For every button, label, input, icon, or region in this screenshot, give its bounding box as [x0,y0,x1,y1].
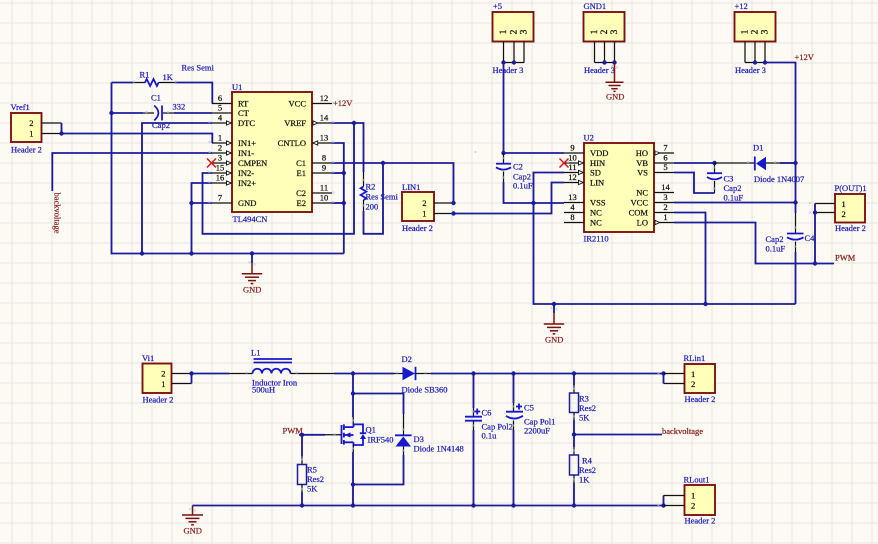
svg-text:GND: GND [238,198,256,208]
svg-text:Header 3: Header 3 [493,65,524,75]
connector LIN1 [402,182,454,233]
svg-text:NC: NC [590,218,602,228]
svg-text:LO: LO [637,218,648,228]
resistor R3 [570,371,597,434]
svg-text:200: 200 [366,202,379,212]
svg-text:7: 7 [218,193,222,203]
svg-text:12: 12 [320,93,329,103]
svg-text:U2: U2 [584,133,594,143]
svg-text:Header 2: Header 2 [143,395,174,405]
svg-text:500uH: 500uH [252,385,275,395]
node switch node top [351,371,355,375]
wire Vref to IN1+ [62,134,213,144]
node VCC rail junction [793,200,797,204]
svg-text:U1: U1 [232,82,242,92]
svg-text:+12: +12 [735,1,748,11]
svg-text:C6: C6 [482,408,492,418]
resistor R4 [570,435,597,506]
svg-text:COM: COM [629,208,649,218]
wire CNTLO to E1 E2 to rail [332,143,344,254]
no-ERC marker HIN [560,159,569,168]
wire bottom ground rail [193,505,664,507]
svg-text:13: 13 [568,192,577,202]
svg-text:R3: R3 [579,394,589,404]
wire RLout tie [661,503,665,507]
op-amp U2 IR2110 [564,133,674,244]
svg-text:2: 2 [29,118,33,128]
svg-text:Header 2: Header 2 [685,516,716,526]
connector P(OUT)1 [815,183,867,233]
svg-text:CNTLO: CNTLO [278,138,306,148]
svg-text:Res2: Res2 [579,465,596,475]
svg-text:2: 2 [600,29,610,34]
transistor Q1 IRF540 [325,374,393,485]
svg-text:Res Semi: Res Semi [366,191,399,201]
wire top rail to RLin1 [661,371,665,375]
wire COM to ground rail [674,213,706,305]
wire C1 output to LIN1 [332,163,454,203]
svg-text:R4: R4 [582,456,593,466]
connector RLout1 [664,475,716,526]
node D1 +12 rail junction [793,161,797,165]
svg-text:SD: SD [590,168,601,178]
svg-text:C1: C1 [151,93,161,103]
node LIN1 pin2 [451,201,455,205]
svg-text:Res2: Res2 [579,403,596,413]
wire VB to D1 [674,162,715,164]
connector +12 Header 3 [735,1,776,75]
svg-text:1: 1 [218,133,222,143]
svg-text:CT: CT [238,108,250,118]
svg-text:2: 2 [509,29,519,34]
node LIN1 pin1 [451,211,455,215]
svg-text:4: 4 [218,113,223,123]
node PWM junction [813,261,817,265]
svg-text:10: 10 [320,193,329,203]
svg-text:Header 3: Header 3 [584,65,615,75]
svg-text:Res2: Res2 [307,474,324,484]
node backvoltage junction [572,432,576,436]
svg-text:C2: C2 [296,188,306,198]
svg-text:Diode 1N4007: Diode 1N4007 [754,174,804,184]
svg-text:5: 5 [218,103,222,113]
wire +12 rail down [765,63,796,164]
svg-text:D3: D3 [414,434,424,444]
wire IN2+ to GND pin [192,183,213,254]
node SD VSS junction [531,201,535,205]
svg-text:R2: R2 [366,182,376,192]
svg-text:1: 1 [499,29,509,34]
svg-text:5K: 5K [579,413,590,423]
grip specks [133,65,811,512]
node PWM R5 junction [300,433,304,437]
node D3 source junction [351,482,355,486]
svg-text:8: 8 [570,212,574,222]
node CT junction [109,111,113,115]
node +5 pin junctions [501,60,505,64]
svg-text:2: 2 [750,29,760,34]
svg-text:9: 9 [570,143,574,153]
svg-text:6: 6 [218,93,222,103]
svg-text:Cap2: Cap2 [766,234,784,244]
svg-text:1: 1 [161,379,165,389]
node C5 bottom junction [511,503,515,507]
svg-text:R5: R5 [307,465,317,475]
connector GND1 Header 3 [584,1,625,75]
diode D1 [715,143,805,185]
svg-text:1: 1 [842,199,846,209]
svg-text:2: 2 [691,379,695,389]
svg-text:10: 10 [568,153,577,163]
svg-text:2: 2 [161,369,165,379]
svg-text:RLout1: RLout1 [684,475,710,485]
svg-text:VS: VS [637,168,648,178]
node E1 junction [342,171,346,175]
wire VDD [504,152,565,154]
node C6 bottom junction [471,503,475,507]
svg-text:14: 14 [661,182,670,192]
svg-text:L1: L1 [251,348,260,358]
svg-text:3: 3 [663,192,667,202]
svg-text:14: 14 [320,113,329,123]
svg-text:6: 6 [663,153,667,163]
resistor R5 [298,435,325,506]
ground GND bottom rail [182,506,203,536]
svg-text:Q1: Q1 [366,425,376,435]
svg-text:+5: +5 [493,1,502,11]
svg-text:GND: GND [606,92,624,102]
node COM rail junction [703,302,707,306]
svg-text:8: 8 [322,153,326,163]
svg-text:C3: C3 [724,174,734,184]
wire LIN1 pin1 to U2 LIN [454,183,565,214]
svg-text:LIN1: LIN1 [402,182,420,192]
connector RLin1 [664,353,716,404]
svg-text:D1: D1 [753,143,763,153]
wire VCC to +12 rail [674,202,796,204]
svg-text:Vref1: Vref1 [11,102,30,112]
svg-text:C5: C5 [524,403,534,413]
svg-text:TL494CN: TL494CN [233,214,268,224]
svg-text:Diode SB360: Diode SB360 [402,385,448,395]
svg-text:IN1+: IN1+ [238,138,256,148]
capacitor C4 [766,203,816,305]
svg-text:LIN: LIN [590,178,604,188]
capacitor C1 [112,93,213,131]
node E2 junction [342,201,346,205]
svg-text:16: 16 [216,173,225,183]
svg-text:RT: RT [238,99,249,109]
svg-text:1: 1 [740,29,750,34]
wire SD to ground [534,173,796,305]
node source rail junction [351,503,355,507]
svg-text:GND: GND [545,335,563,345]
node GND1 pin junctions [602,60,606,64]
resistor R1 [112,63,215,104]
svg-text:CMPEN: CMPEN [238,158,267,168]
svg-text:7: 7 [663,143,667,153]
svg-text:0.1uF: 0.1uF [766,244,786,254]
node pin16 rail junction [189,251,193,255]
svg-text:HO: HO [636,148,648,158]
svg-text:2: 2 [422,198,426,208]
svg-text:IRF540: IRF540 [368,435,394,445]
svg-text:E1: E1 [297,168,306,178]
node R4 bottom junction [572,503,576,507]
ground GND U2 rail [544,302,564,345]
svg-text:5: 5 [663,162,667,172]
connector Vref1 [11,102,62,155]
diode D2 [353,354,664,395]
svg-text:1: 1 [663,212,667,222]
svg-text:Vi1: Vi1 [142,353,154,363]
resistor R2 [361,163,399,234]
svg-text:0.1uF: 0.1uF [724,193,744,203]
svg-text:12: 12 [568,172,577,182]
wire source to rail [352,485,354,506]
inductor L1 [192,348,354,395]
svg-text:GND: GND [184,526,202,536]
svg-text:3: 3 [519,29,529,34]
diode D3 [353,394,464,485]
svg-text:1K: 1K [163,72,174,82]
wire VS to C3 [674,173,715,194]
svg-text:1: 1 [691,369,695,379]
svg-text:GND: GND [243,285,261,295]
wire +5 down to VDD [503,63,505,154]
svg-text:NC: NC [636,188,648,198]
svg-text:1: 1 [590,29,600,34]
node Vref junction [59,131,63,135]
svg-text:VREF: VREF [284,118,306,128]
svg-text:RLin1: RLin1 [684,353,706,363]
svg-text:backvoltage: backvoltage [662,426,703,436]
wire IN2- to feedback line [203,123,355,234]
svg-text:0.1uF: 0.1uF [513,181,533,191]
svg-text:2: 2 [663,202,667,212]
svg-text:3: 3 [218,153,222,163]
svg-text:2: 2 [218,143,222,153]
svg-text:Header 2: Header 2 [685,394,716,404]
wire DTC to ground rail [142,123,212,254]
svg-text:DTC: DTC [238,118,255,128]
svg-text:Header 2: Header 2 [402,223,433,233]
svg-text:1: 1 [29,129,33,139]
wire Vref1 pin2 to pin1 [61,123,63,134]
wire E1 [332,172,344,174]
svg-text:2: 2 [691,501,695,511]
wire Vi1 pins tied [191,374,193,384]
svg-text:2200uF: 2200uF [524,426,550,436]
node pin7 junction [189,201,193,205]
svg-text:11: 11 [320,183,328,193]
node P(OUT)1 pin2 junction [813,210,817,214]
svg-text:C4: C4 [805,233,816,243]
svg-text:VDD: VDD [590,148,608,158]
wire E2 [332,202,344,204]
svg-text:Cap2: Cap2 [152,120,170,130]
no-ERC marker pin3 [207,159,216,168]
svg-text:Header 2: Header 2 [11,145,42,155]
capacitor C6 [465,371,513,505]
node Vi1 junction [189,371,193,375]
svg-text:0.1u: 0.1u [482,431,498,441]
svg-text:+12V: +12V [795,52,815,62]
svg-text:3: 3 [760,29,770,34]
wire rail between [795,163,797,203]
svg-text:E2: E2 [297,198,306,208]
svg-text:IR2110: IR2110 [584,234,609,244]
svg-text:IN2-: IN2- [238,168,254,178]
capacitor C5 [506,371,555,505]
svg-text:4: 4 [570,202,575,212]
ground GND U1 rail [242,251,262,294]
node VDD junction [501,151,505,155]
svg-text:VCC: VCC [631,198,649,208]
svg-text:3: 3 [610,29,620,34]
svg-text:VCC: VCC [289,99,307,109]
wire GND pin7 [192,202,213,204]
node VB junction [712,161,716,165]
node DTC rail junction [140,251,144,255]
wire VREF [332,123,364,172]
wire P(OUT)1 pins to PWM [814,204,816,264]
svg-text:11: 11 [568,162,576,172]
svg-text:5K: 5K [307,484,318,494]
svg-text:IN1-: IN1- [238,148,254,158]
svg-text:R1: R1 [140,70,150,80]
svg-text:Res Semi: Res Semi [182,63,215,73]
wire IN1- to backvoltage [52,153,212,191]
svg-text:1: 1 [422,209,426,219]
svg-text:Header 3: Header 3 [735,65,766,75]
wire LO to PWM [674,223,834,264]
svg-text:C2: C2 [513,162,523,172]
svg-text:PWM: PWM [835,253,856,263]
svg-text:P(OUT)1: P(OUT)1 [835,183,867,193]
svg-text:NC: NC [590,208,602,218]
svg-text:9: 9 [322,163,326,173]
wire CT vertical to ground rail [112,83,344,254]
wire PWM to gate [299,434,325,436]
svg-text:+12V: +12V [333,98,353,108]
wire backvoltage [574,434,662,436]
svg-text:15: 15 [216,163,225,173]
svg-text:Cap2: Cap2 [724,183,742,193]
capacitor C3 [707,163,743,203]
svg-text:GND1: GND1 [584,1,607,11]
svg-text:VSS: VSS [590,198,606,208]
svg-text:HIN: HIN [590,158,605,168]
node VREF junction [352,121,356,125]
svg-text:IN2+: IN2+ [238,178,256,188]
svg-text:1K: 1K [579,475,590,485]
ground GND1 symbol [606,63,625,102]
svg-text:1: 1 [691,491,695,501]
op-amp U1 TL494CN [212,82,332,224]
svg-text:VB: VB [636,158,648,168]
svg-text:D2: D2 [402,354,412,364]
node C1 branch junction [381,161,385,165]
connector +5 Header 3 [493,1,534,75]
capacitor C2 [496,153,564,203]
svg-text:C1: C1 [296,158,306,168]
svg-text:backvoltage: backvoltage [53,193,63,234]
svg-text:Diode 1N4148: Diode 1N4148 [414,444,464,454]
node R5 bottom junction [300,503,304,507]
connector Vi1 [142,353,192,405]
svg-text:Header 2: Header 2 [835,223,866,233]
svg-text:2: 2 [842,209,846,219]
svg-text:332: 332 [173,102,186,112]
svg-text:13: 13 [320,133,329,143]
node +12 pin junctions [753,60,757,64]
